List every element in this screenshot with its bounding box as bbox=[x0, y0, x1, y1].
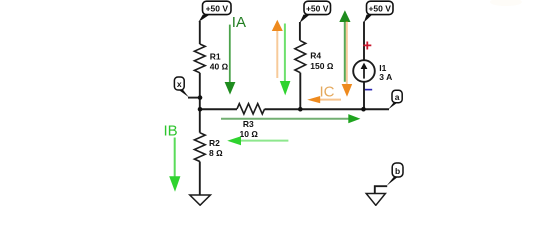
ground right bbox=[366, 194, 385, 206]
svg-text:+50 V: +50 V bbox=[306, 3, 329, 13]
node label b bbox=[387, 163, 403, 186]
svg-text:10 Ω: 10 Ω bbox=[240, 129, 259, 139]
svg-text:R2: R2 bbox=[209, 138, 220, 148]
svg-text:40 Ω: 40 Ω bbox=[210, 62, 229, 72]
annotation arrow green up (pair 2) bbox=[339, 10, 350, 82]
label +50 V box 3 bbox=[364, 1, 393, 22]
svg-text:R1: R1 bbox=[210, 51, 221, 61]
svg-text:a: a bbox=[395, 92, 400, 102]
horizontal bus wire left part bbox=[200, 108, 237, 110]
annotation arrow IC left bbox=[307, 96, 341, 103]
junction dot I1-bus bbox=[361, 107, 366, 112]
current source I1 bbox=[353, 60, 392, 82]
svg-text:x: x bbox=[177, 79, 182, 89]
wire R4 branch top lead bbox=[299, 22, 301, 41]
svg-text:3 A: 3 A bbox=[379, 72, 392, 82]
svg-text:−: − bbox=[364, 82, 373, 99]
label +50 V box 1 bbox=[199, 1, 232, 22]
annotation arrow left short (light green) bbox=[227, 136, 288, 145]
wire node b to ground bbox=[375, 186, 387, 193]
wire I1 bottom lead bbox=[363, 82, 365, 109]
wire R1 bottom lead to bus bbox=[199, 73, 201, 133]
annotation arrow right long (R3 current) bbox=[221, 114, 360, 123]
svg-text:IB: IB bbox=[164, 123, 178, 140]
wire R2 bottom lead bbox=[199, 162, 201, 196]
junction dot x bbox=[198, 95, 203, 100]
annotation arrow green down (pair 1) bbox=[280, 24, 291, 96]
resistor R3 bbox=[237, 104, 265, 139]
label +50 V box 2 bbox=[300, 1, 331, 23]
svg-text:+50 V: +50 V bbox=[206, 3, 229, 13]
annotation arrow orange up (pair 1) bbox=[272, 20, 283, 78]
annotation arrow IB down bbox=[169, 138, 180, 192]
wire I1 branch top lead bbox=[363, 22, 365, 61]
wire from node x to left branch bbox=[188, 97, 200, 99]
svg-text:+: + bbox=[363, 37, 372, 54]
annotation arrow orange down (pair 2) bbox=[342, 21, 353, 97]
svg-text:IC: IC bbox=[320, 84, 335, 101]
faint smudge top right bbox=[490, 0, 522, 6]
svg-text:b: b bbox=[395, 166, 400, 176]
resistor R4 bbox=[295, 41, 334, 73]
junction dot R4-bus bbox=[298, 107, 303, 112]
svg-text:R3: R3 bbox=[243, 119, 254, 129]
horizontal bus wire right part bbox=[265, 108, 389, 110]
svg-text:R4: R4 bbox=[310, 51, 321, 61]
resistor R1 bbox=[194, 44, 228, 73]
resistor R2 bbox=[194, 133, 223, 162]
ground left bbox=[190, 195, 211, 205]
svg-text:+50 V: +50 V bbox=[368, 3, 391, 13]
annotation arrow IA down bbox=[225, 25, 236, 95]
svg-text:150 Ω: 150 Ω bbox=[310, 61, 334, 71]
wire R1 branch top lead bbox=[199, 21, 201, 44]
node label x bbox=[174, 77, 188, 97]
node label a bbox=[388, 90, 402, 109]
wire R4 bottom lead bbox=[299, 73, 301, 110]
svg-text:8 Ω: 8 Ω bbox=[209, 148, 223, 158]
junction dot bus left bbox=[198, 107, 203, 112]
svg-text:IA: IA bbox=[232, 14, 246, 31]
